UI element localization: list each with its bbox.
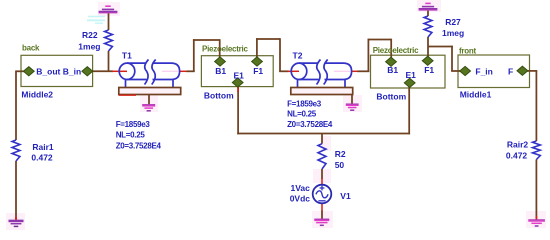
- svg-text:back: back: [22, 43, 40, 52]
- svg-text:Bottom: Bottom: [204, 91, 234, 101]
- svg-text:R27: R27: [445, 17, 461, 27]
- svg-text:Middle1: Middle1: [460, 89, 492, 99]
- svg-text:F=1859e3: F=1859e3: [116, 120, 151, 129]
- svg-text:F=1859e3: F=1859e3: [287, 99, 322, 108]
- svg-text:E1: E1: [406, 70, 417, 80]
- svg-text:V1: V1: [340, 191, 351, 201]
- svg-text:0.472: 0.472: [506, 150, 528, 160]
- svg-text:1meg: 1meg: [78, 41, 100, 51]
- svg-text:Rair2: Rair2: [507, 140, 529, 150]
- svg-text:NL=0.25: NL=0.25: [287, 110, 317, 119]
- svg-text:R2: R2: [335, 149, 346, 159]
- svg-text:F1: F1: [253, 66, 263, 76]
- svg-text:R22: R22: [82, 30, 98, 40]
- svg-text:Middle2: Middle2: [21, 90, 53, 100]
- svg-text:B1: B1: [387, 65, 398, 75]
- svg-text:F_in: F_in: [475, 67, 492, 77]
- svg-text:Z0=3.7528E4: Z0=3.7528E4: [287, 120, 333, 129]
- svg-text:Z0=3.7528E4: Z0=3.7528E4: [116, 142, 162, 151]
- svg-text:T2: T2: [293, 50, 303, 60]
- svg-text:Piezoelectric: Piezoelectric: [202, 45, 248, 54]
- svg-text:0.472: 0.472: [31, 153, 53, 163]
- svg-text:E1: E1: [234, 71, 245, 81]
- svg-text:NL=0.25: NL=0.25: [116, 131, 146, 140]
- svg-text:F1: F1: [424, 65, 434, 75]
- svg-text:1meg: 1meg: [442, 28, 464, 38]
- svg-text:B1: B1: [215, 66, 226, 76]
- svg-text:F: F: [508, 67, 513, 77]
- svg-text:Piezoelectric: Piezoelectric: [373, 46, 419, 55]
- svg-text:Bottom: Bottom: [376, 92, 406, 102]
- svg-text:T1: T1: [122, 50, 132, 60]
- svg-text:1Vac: 1Vac: [291, 183, 311, 193]
- svg-text:front: front: [459, 47, 477, 56]
- svg-text:Rair1: Rair1: [32, 142, 54, 152]
- svg-text:B_out B_in: B_out B_in: [36, 66, 81, 76]
- svg-text:0Vdc: 0Vdc: [290, 194, 311, 204]
- svg-text:50: 50: [335, 160, 345, 170]
